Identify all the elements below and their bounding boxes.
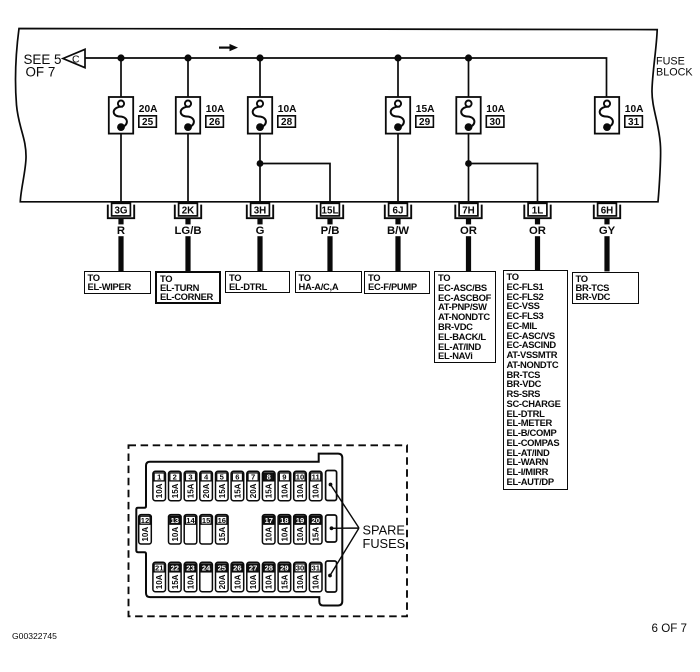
svg-text:10A: 10A — [280, 527, 289, 542]
svg-text:24: 24 — [202, 564, 211, 573]
svg-text:20A: 20A — [202, 483, 211, 498]
svg-text:3G: 3G — [114, 205, 127, 216]
svg-text:15A: 15A — [265, 483, 274, 498]
svg-text:25: 25 — [142, 117, 154, 128]
svg-text:7: 7 — [251, 473, 255, 482]
svg-text:B/W: B/W — [387, 225, 409, 237]
svg-text:10A: 10A — [296, 483, 305, 498]
svg-text:23: 23 — [186, 564, 194, 573]
svg-text:15A: 15A — [187, 483, 196, 498]
svg-text:OR: OR — [529, 225, 546, 237]
svg-text:17: 17 — [265, 516, 273, 525]
svg-text:FUSES: FUSES — [363, 536, 406, 551]
svg-text:27: 27 — [249, 564, 257, 573]
svg-text:29: 29 — [280, 564, 288, 573]
svg-text:LG/B: LG/B — [175, 225, 202, 237]
svg-text:3: 3 — [188, 473, 192, 482]
svg-text:6H: 6H — [601, 205, 614, 216]
svg-text:28: 28 — [265, 564, 273, 573]
svg-text:11: 11 — [312, 473, 321, 482]
svg-text:G: G — [256, 225, 265, 237]
svg-text:15: 15 — [202, 516, 211, 525]
svg-text:21: 21 — [155, 564, 164, 573]
svg-text:7H: 7H — [462, 205, 475, 216]
svg-text:6 OF 7: 6 OF 7 — [652, 622, 687, 635]
svg-text:10: 10 — [296, 473, 304, 482]
svg-text:10A: 10A — [625, 104, 644, 115]
svg-text:15A: 15A — [233, 483, 242, 498]
svg-text:6: 6 — [235, 473, 239, 482]
svg-text:29: 29 — [419, 117, 431, 128]
svg-text:25: 25 — [218, 564, 227, 573]
svg-text:10A: 10A — [312, 574, 321, 589]
svg-text:P/B: P/B — [321, 225, 340, 237]
svg-text:15A: 15A — [218, 483, 227, 498]
svg-text:15L: 15L — [322, 205, 339, 216]
svg-text:28: 28 — [281, 117, 293, 128]
svg-text:10A: 10A — [265, 574, 274, 589]
svg-text:10A: 10A — [280, 483, 289, 498]
svg-text:10A: 10A — [233, 574, 242, 589]
svg-text:OR: OR — [460, 225, 477, 237]
svg-text:15A: 15A — [312, 527, 321, 542]
svg-text:30: 30 — [490, 117, 502, 128]
svg-text:20A: 20A — [249, 483, 258, 498]
svg-text:22: 22 — [171, 564, 179, 573]
svg-text:10A: 10A — [265, 527, 274, 542]
svg-text:31: 31 — [628, 117, 640, 128]
svg-text:13: 13 — [171, 516, 179, 525]
svg-text:20A: 20A — [139, 104, 158, 115]
svg-text:16: 16 — [218, 516, 226, 525]
svg-text:10A: 10A — [312, 483, 321, 498]
svg-text:10A: 10A — [278, 104, 297, 115]
svg-text:10A: 10A — [296, 574, 305, 589]
svg-text:10A: 10A — [486, 104, 505, 115]
svg-text:15A: 15A — [218, 527, 227, 542]
svg-text:10A: 10A — [155, 574, 164, 589]
svg-text:10A: 10A — [296, 527, 305, 542]
svg-text:3H: 3H — [254, 205, 267, 216]
svg-text:10A: 10A — [187, 574, 196, 589]
svg-text:30: 30 — [296, 564, 304, 573]
svg-text:15A: 15A — [416, 104, 435, 115]
svg-text:15A: 15A — [280, 574, 289, 589]
svg-text:14: 14 — [186, 516, 195, 525]
svg-text:26: 26 — [233, 564, 241, 573]
svg-text:C: C — [72, 54, 80, 66]
svg-text:R: R — [117, 225, 125, 237]
svg-text:GY: GY — [599, 225, 616, 237]
svg-text:12: 12 — [141, 516, 149, 525]
svg-text:10A: 10A — [155, 483, 164, 498]
svg-text:10A: 10A — [141, 527, 150, 542]
svg-text:26: 26 — [209, 117, 221, 128]
svg-text:1L: 1L — [532, 205, 543, 216]
svg-text:9: 9 — [282, 473, 286, 482]
svg-text:6J: 6J — [393, 205, 404, 216]
svg-text:G00322745: G00322745 — [12, 631, 57, 641]
svg-text:19: 19 — [296, 516, 304, 525]
svg-text:8: 8 — [267, 473, 271, 482]
svg-text:15A: 15A — [171, 574, 180, 589]
svg-text:10A: 10A — [171, 527, 180, 542]
svg-text:OF 7: OF 7 — [26, 64, 56, 79]
svg-text:BLOCK: BLOCK — [656, 67, 693, 79]
svg-text:20A: 20A — [218, 574, 227, 589]
svg-text:10A: 10A — [249, 574, 258, 589]
svg-text:10A: 10A — [206, 104, 225, 115]
svg-text:18: 18 — [280, 516, 288, 525]
svg-text:2: 2 — [173, 473, 177, 482]
svg-text:15A: 15A — [171, 483, 180, 498]
svg-text:20: 20 — [311, 516, 319, 525]
svg-text:31: 31 — [311, 564, 320, 573]
svg-text:2K: 2K — [182, 205, 195, 216]
